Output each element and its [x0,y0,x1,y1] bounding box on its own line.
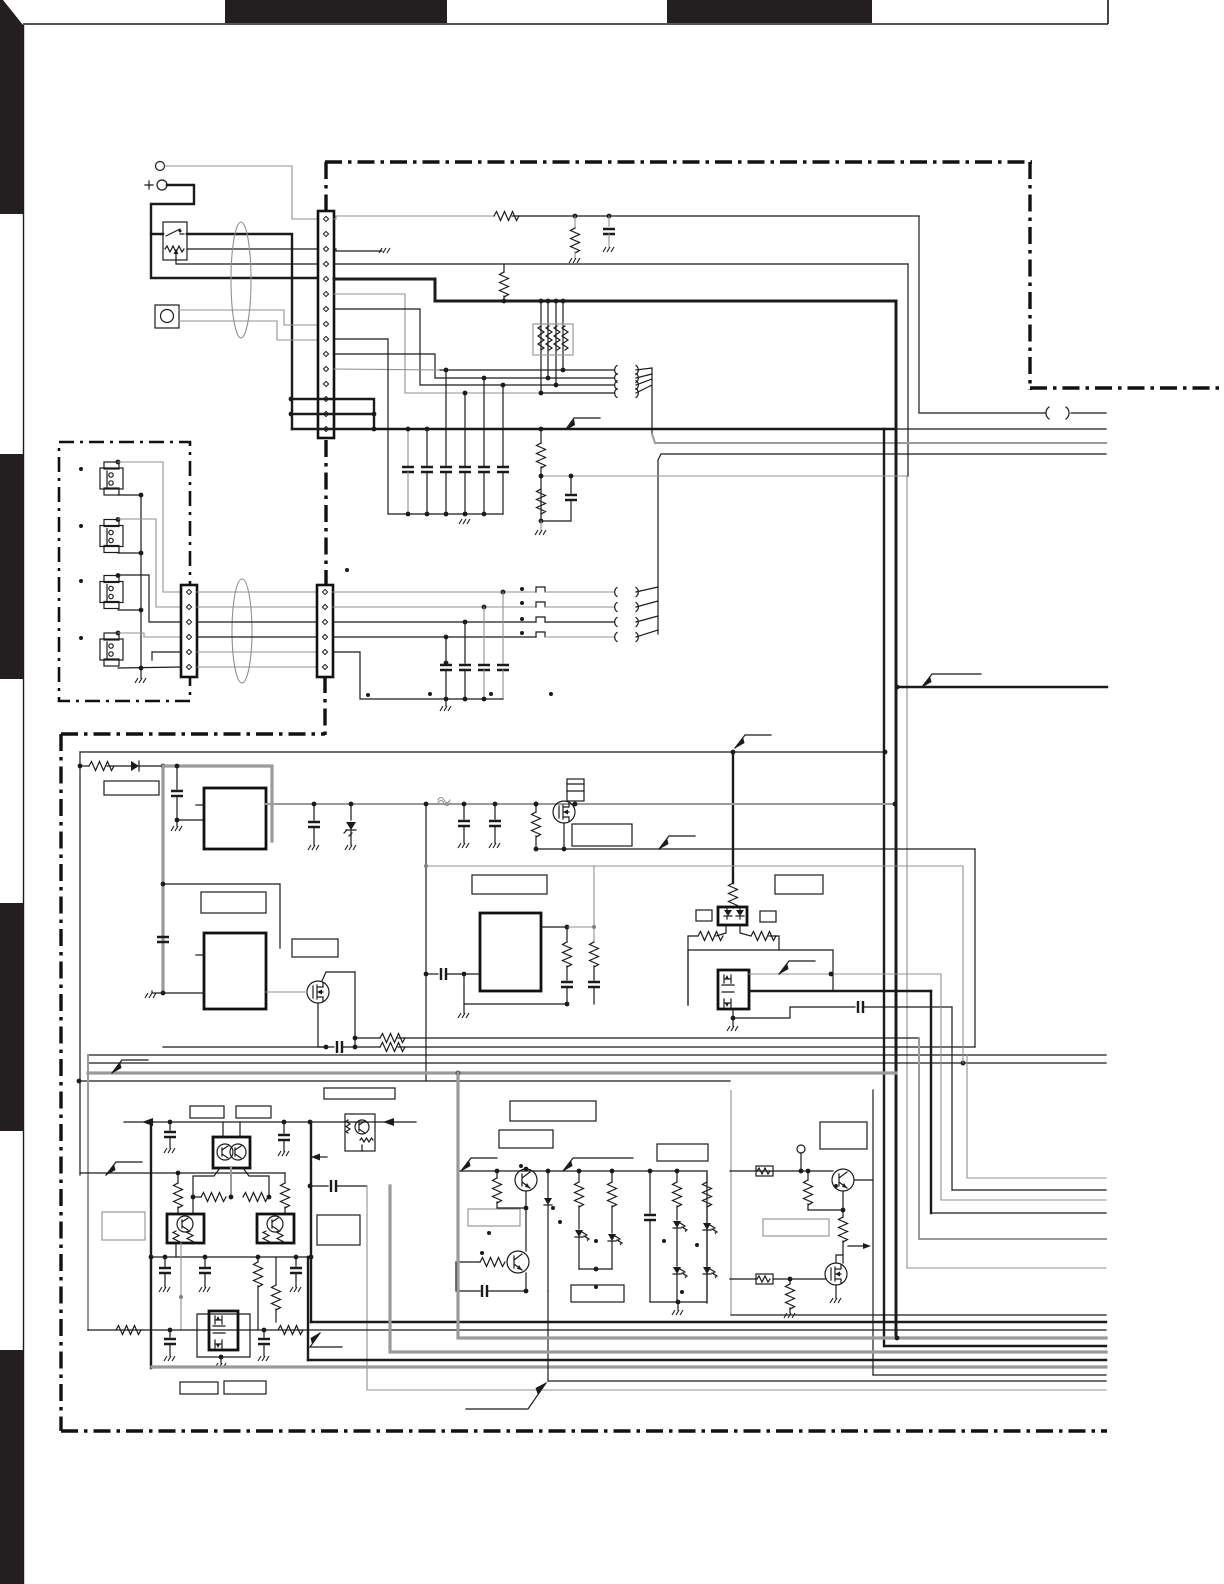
connector CN3 [317,585,333,677]
wire [676,1229,678,1266]
resistor [839,1217,848,1242]
wire [555,301,557,385]
digital transistor box [345,1114,375,1151]
wire [398,1037,919,1039]
wire [197,621,317,623]
junction [444,697,449,702]
label box [468,1209,520,1226]
wire [730,1170,833,1172]
wire from T1 to pin1 [165,166,318,219]
junction [883,750,888,755]
wire [540,429,542,443]
ladder verticals [577,1169,582,1174]
wire [842,1210,844,1217]
IC3 [480,913,541,991]
wire [193,1168,220,1197]
wire [547,1171,549,1198]
wire [318,1003,326,1047]
junction [524,1167,529,1172]
big arrow A11 [466,1383,546,1409]
amp bottom grey bold rail [152,1365,1106,1368]
capacitor to ground at 609 [608,216,610,226]
wire [177,1207,179,1214]
wire [118,552,141,554]
rail junctions [149,1120,154,1125]
T1 secondary bus down to row 443 [651,368,653,434]
floating marker dots [345,568,349,572]
wire [176,796,178,820]
signal wire [907,1267,1106,1269]
signal arrow A1 on row 429 [566,418,600,429]
bead filters [536,587,545,637]
wire [538,326,544,350]
exit rows upper bundle [967,1177,1106,1179]
connector pin [322,634,327,639]
junction [262,1328,267,1333]
wire [310,1185,328,1187]
junction [176,1171,181,1176]
junction [806,1169,811,1174]
wire [463,1004,465,1013]
wire [974,849,976,1047]
wire [177,819,204,821]
signal wire [438,798,450,806]
thin frame [458,1100,707,1303]
vertical 884 branch from row 429 [883,429,885,1346]
resistor [500,272,509,297]
transformer T1 rows [563,369,614,371]
capacitor [402,467,414,472]
amp top rail 1122 [124,1121,416,1123]
power switch box S1 [163,222,187,260]
junction [573,802,578,807]
wire [197,636,317,638]
resistor [494,212,519,221]
resistor [89,762,114,771]
ground [440,706,451,711]
label box [100,468,123,489]
ground [215,1363,226,1368]
coil winding [615,366,617,375]
LED [608,1234,622,1246]
wire [567,784,584,791]
wire [556,384,614,386]
wire [769,936,779,950]
junction [161,764,166,769]
wire [547,301,549,378]
left trim line [23,25,25,1584]
connector pin [323,216,328,221]
connector bottom bold U rows 399/414 [291,399,374,429]
capacitor [603,229,615,234]
resistor [608,1182,617,1207]
wire [263,1231,283,1243]
cable oval top [231,222,251,338]
transistor [507,1251,529,1273]
signal wire [941,1199,1106,1201]
signal wire [179,321,330,340]
wire [547,1205,549,1381]
signal wire [940,974,942,1200]
wire [483,378,485,466]
signal wire [87,1055,89,1330]
wire [566,987,568,1004]
row 991 bold to 931 [749,990,931,992]
series cap row 1186 to grey vertical 367 [308,1184,313,1189]
marker dot [487,1231,491,1235]
capacitor [283,1122,285,1133]
wire [789,1308,791,1313]
wire [107,765,131,767]
wire [952,1189,1106,1191]
wire [464,670,466,699]
wire [196,954,204,956]
resistor [201,1193,226,1202]
wire [80,765,89,767]
IC block [257,1214,294,1243]
wire [334,354,548,378]
junction [501,590,506,595]
signal wire [197,666,317,668]
LED [673,1267,687,1279]
wire [118,667,181,668]
wire [722,975,734,1007]
junction [534,802,539,807]
signal wire [966,1055,968,1178]
junction [829,972,834,977]
marker dot [834,1184,838,1188]
resistor [116,1326,141,1335]
wire [173,1231,193,1243]
wire [1071,412,1106,414]
wire [807,1204,809,1210]
label box [756,1166,773,1176]
wire [907,264,909,476]
MOSFET Q3 [307,981,329,1003]
connector CN2 [181,585,197,677]
thin wire from switch resistor row 249 [187,248,330,250]
junction [456,1071,461,1076]
junction [168,1328,173,1333]
junction [495,1169,500,1174]
resistor to ground at 575 [574,216,576,228]
junction [893,802,898,807]
wire [322,972,355,981]
resistor [480,1258,505,1267]
wire [896,428,1106,430]
wire [213,1316,225,1348]
wire [336,1185,367,1187]
arrow A7 [106,1162,142,1175]
header black bar 1 [225,0,447,23]
left registration block 2 [0,454,23,679]
arrow A4 on row 849 [659,836,695,849]
left inner rail x=80 [79,752,81,1175]
top block border: left edge between connectors [324,440,327,586]
row 849 [536,848,975,850]
ground [379,248,390,253]
wire [426,973,438,975]
wires to T2 [545,591,614,593]
wire [593,987,595,1004]
arrowhead [725,975,729,1007]
junction [799,1169,804,1174]
wire [650,1301,707,1303]
ground [672,1310,683,1315]
capacitor [561,982,573,987]
header rule [23,23,1108,25]
header right corner tick [1107,0,1109,24]
junction [424,864,428,868]
wire [1066,407,1069,419]
signal wire [567,926,594,928]
wire [512,215,919,217]
wire [951,1007,953,1190]
grey feed bus around IC1 [163,766,272,841]
capacitor [204,1257,206,1266]
label box [324,1088,395,1099]
wire [398,1046,975,1048]
IC block [718,907,747,925]
label box [224,1381,266,1394]
connector pin [322,589,327,594]
junction [961,1061,966,1066]
IC2 [204,933,266,1009]
wire [578,1171,580,1182]
signal wire [366,1186,368,1390]
wire [139,765,163,767]
top block border: left edge upper [324,162,327,212]
connector pin [323,261,328,266]
wire [483,472,485,514]
marker dot [594,1285,598,1289]
wire [445,637,447,663]
bold row 279 step to 301 bus [334,279,896,301]
wire [118,609,141,611]
resistor at 536 down to row 849 [535,804,537,812]
junction [524,1289,529,1294]
row 415 from vertical 919 with inline connector [919,216,1045,413]
wire [222,1122,224,1137]
row 216 thin wire with RC to right [334,216,494,219]
output row 1330 [88,1329,1106,1331]
wire [706,1231,708,1266]
wire [636,368,652,393]
wire [175,1243,177,1257]
resistor [703,1182,712,1207]
wire [732,906,734,908]
capacitor [644,1215,656,1220]
transistor pair left [515,1169,537,1191]
capacitor [858,1001,863,1013]
signal wire [483,670,485,699]
wire [487,1273,526,1291]
label box [571,1285,624,1302]
ground [535,530,546,535]
wire [706,1206,708,1222]
ground [830,1298,841,1303]
wire [163,992,204,994]
signal wire [919,1238,1106,1240]
wire [176,820,178,826]
junction [324,1045,329,1050]
connector pin [323,351,328,356]
capacitor [497,665,509,670]
signal wire [88,1071,896,1074]
coil winding [615,588,617,597]
wire [566,927,568,942]
wire [525,1208,527,1251]
RCA jack [100,576,123,609]
resistor [698,932,723,941]
capacitor [308,822,320,827]
row 752 to rail 885 [80,751,885,753]
wire [757,1276,770,1282]
junction [539,391,544,396]
wire [931,1212,1106,1214]
ground [458,1013,469,1018]
row 264 continues to resistor drop at 504 [334,263,908,265]
resistor [537,489,546,514]
connector pin [323,396,328,401]
IC1 [204,788,266,849]
resistor [532,812,541,837]
LED [703,1223,717,1235]
wire [835,1285,837,1298]
wire [677,1302,679,1310]
marker dot [79,467,83,471]
signal wire [545,606,614,608]
drive network below P1 [230,1168,232,1197]
wire [464,393,466,466]
junction [841,1208,846,1213]
capacitor [459,467,471,472]
wire [593,966,595,980]
junction [219,1355,224,1360]
wire [611,1242,613,1269]
wire [502,472,504,514]
junction [895,685,900,690]
junction [406,427,411,432]
wire [757,1168,770,1174]
wire [649,1220,651,1302]
junction [788,1277,793,1282]
ground [727,1026,738,1031]
bold wire [291,413,374,415]
wire [554,326,560,350]
small box above Q2 [567,779,584,801]
marker dot [79,579,83,583]
six wires CN2 to CN3 [197,591,317,593]
bold wire [885,1345,1106,1347]
wire [152,651,181,653]
signal wire [458,1073,1106,1338]
label box [763,1219,829,1236]
wire [540,301,542,393]
wire [350,804,352,820]
wire [497,1191,526,1208]
ground [459,519,470,524]
signal wire [593,866,595,942]
thin loop around package [197,1314,250,1357]
junction [502,299,507,304]
RCA jack [100,520,123,553]
row 443 from T1 bus [652,434,1106,443]
wire [842,1241,844,1263]
opto legs with resistors [716,925,726,936]
wire [611,1206,613,1233]
wire [676,1171,678,1182]
row 750/766 diode feed [78,764,83,769]
wire row 264 to connector [176,258,330,264]
wire [445,699,447,706]
wire [730,1278,756,1280]
caps on rail [169,1122,171,1130]
wire [88,1062,1106,1064]
resistor [278,1326,303,1335]
wire [808,1191,843,1210]
wire [535,836,537,849]
top block border: stub to right [1030,386,1224,389]
wire [284,1173,286,1183]
signal wire [367,1389,1106,1391]
arrowhead [131,761,139,771]
side feedback resistors [177,1173,179,1183]
bold wire [308,1359,1106,1361]
wire [360,1138,373,1142]
junction [731,750,736,755]
grey row 476 and vertical 907 [541,476,907,1268]
resistor pack RP1 [533,324,573,355]
wire [445,670,447,699]
junction [731,1016,736,1021]
wire [872,1090,874,1375]
arrow A6 [112,1060,148,1073]
capacitor [337,1041,342,1053]
big lower box: left edge [59,734,62,1431]
marker dot [558,1220,562,1224]
wire [456,1261,480,1263]
cap bank under row 429 [334,339,503,514]
signal wire [266,991,307,993]
capacitor [331,1180,336,1192]
wire [676,1206,678,1220]
signal wire [161,768,164,993]
label box [236,1106,271,1118]
resistor [575,1182,584,1207]
label box [657,1144,708,1161]
signal wire [545,636,614,638]
4 taps off bus into resistor pack [539,299,544,304]
junction [149,1255,154,1260]
arrowhead [736,910,744,916]
wire [313,827,315,845]
vertical 896 from bus 301 [895,301,898,1338]
wire [545,621,614,623]
signal wire [333,606,536,608]
resistor [673,1182,682,1207]
label box [696,910,712,921]
capacitor [295,1257,297,1266]
ground [171,826,182,831]
junction [594,1267,599,1272]
junction [462,972,467,977]
wire [863,1006,952,1008]
RCA jack 1 [100,462,123,495]
signal wire [118,519,181,607]
label box [104,488,119,495]
wire [446,973,480,975]
